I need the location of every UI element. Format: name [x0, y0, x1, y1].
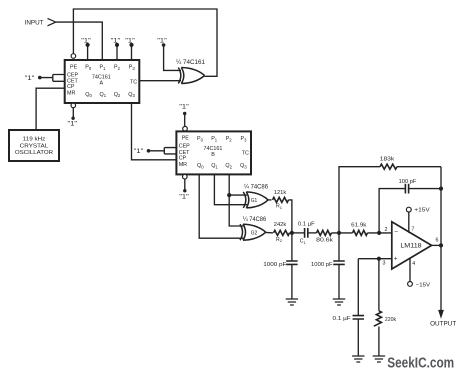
ground 0.1 uF	[352, 356, 364, 362]
svg-text:121k: 121k	[274, 190, 287, 196]
svg-text:CEP: CEP	[67, 72, 78, 78]
output arrow	[440, 245, 442, 310]
active-low bubble MR counter A	[71, 103, 76, 108]
supply -15V pin 4	[409, 258, 411, 281]
resistor R1 121k	[268, 199, 271, 201]
active-low bubble PE counter A	[71, 54, 76, 59]
svg-text:3: 3	[383, 261, 386, 267]
svg-text:119 kHz: 119 kHz	[23, 136, 46, 142]
svg-text:"1": "1"	[125, 38, 135, 45]
svg-text:P0: P0	[197, 136, 204, 142]
svg-text:Q1: Q1	[211, 163, 218, 169]
svg-text:61.9k: 61.9k	[351, 222, 367, 228]
svg-text:SeekIC.com: SeekIC.com	[387, 356, 454, 372]
svg-text:0.1 µF: 0.1 µF	[298, 221, 315, 227]
svg-text:P3: P3	[241, 136, 248, 142]
svg-text:¼ 74C86: ¼ 74C86	[243, 217, 267, 223]
svg-text:Q0: Q0	[85, 92, 92, 98]
xor gate G1 quarter 74C86	[243, 192, 246, 208]
resistor 220k	[378, 259, 380, 311]
svg-text:183k: 183k	[380, 157, 395, 163]
svg-text:220k: 220k	[385, 317, 396, 323]
svg-text:2: 2	[385, 227, 388, 233]
svg-text:CEP: CEP	[179, 144, 190, 150]
svg-text:A: A	[99, 81, 103, 87]
node feedback junction	[337, 231, 341, 235]
svg-text:P2: P2	[114, 65, 121, 71]
svg-text:242k: 242k	[274, 222, 287, 228]
svg-text:CP: CP	[67, 84, 75, 90]
svg-text:TC: TC	[242, 151, 249, 157]
svg-text:100 pF: 100 pF	[399, 179, 417, 185]
ground left 1000 pF	[286, 299, 298, 305]
svg-text:+: +	[394, 255, 398, 262]
wire XOR U3 output feedback to PE of counter A	[73, 9, 217, 76]
node output	[439, 243, 443, 247]
pull-up node P2 counter A	[115, 43, 119, 47]
svg-text:TC: TC	[130, 79, 137, 85]
input terminal arrowhead	[48, 18, 56, 25]
wire non-inverting input network	[358, 258, 392, 260]
svg-text:P2: P2	[226, 136, 233, 142]
wire op-amp output	[432, 244, 441, 246]
xor gate G2 quarter 74C86	[240, 224, 243, 240]
svg-text:1000 pF: 1000 pF	[311, 262, 333, 268]
svg-text:"1": "1"	[111, 38, 121, 45]
svg-text:CP: CP	[179, 155, 187, 161]
svg-text:MR: MR	[67, 90, 75, 96]
svg-text:P0: P0	[85, 65, 92, 71]
counter U1 74C161 A	[65, 60, 140, 103]
resistor 61.9k	[353, 230, 368, 235]
capacitor 100 pF feedback	[379, 189, 405, 233]
resistor 183k feedback	[339, 167, 380, 233]
svg-text:"1": "1"	[81, 38, 91, 45]
svg-text:0.1 µF: 0.1 µF	[333, 316, 352, 322]
svg-text:Q1: Q1	[100, 92, 107, 98]
svg-text:−: −	[394, 228, 398, 235]
wire Q3 counter A to CP counter B	[132, 103, 177, 160]
capacitor C1 0.1 uF	[292, 232, 305, 234]
svg-text:P1: P1	[100, 65, 107, 71]
svg-text:+15V: +15V	[414, 208, 430, 214]
svg-text:1000 pF: 1000 pF	[263, 262, 287, 268]
svg-text:¼ 74C86: ¼ 74C86	[244, 184, 269, 190]
resistor R2 242k	[266, 231, 273, 234]
svg-text:LM118: LM118	[400, 244, 422, 250]
capacitor 1000 pF left	[291, 233, 293, 261]
xor gate U3 quarter 74C161	[178, 68, 181, 84]
wire Q1 counter B to G1	[214, 174, 247, 204]
wire Q0 counter B to G2	[199, 174, 244, 238]
wire INPUT to P1 of counter A	[56, 22, 102, 60]
pull-up node P3 counter A	[129, 43, 133, 47]
svg-text:MR: MR	[179, 162, 187, 168]
svg-text:G1: G1	[251, 198, 258, 204]
svg-text:"1": "1"	[134, 148, 144, 155]
svg-text:C1: C1	[300, 239, 307, 245]
svg-text:PE: PE	[182, 136, 190, 142]
svg-text:¼ 74C161: ¼ 74C161	[176, 60, 206, 66]
svg-text:P1: P1	[211, 136, 218, 142]
svg-text:80.6k: 80.6k	[316, 238, 333, 244]
svg-text:R2: R2	[276, 237, 283, 243]
svg-text:R1: R1	[276, 203, 283, 209]
svg-text:OSCILLATOR: OSCILLATOR	[15, 150, 53, 156]
ground 220k	[373, 356, 385, 362]
ground right 1000 pF	[333, 299, 345, 305]
svg-text:"1": "1"	[179, 104, 189, 111]
svg-text:Q2: Q2	[225, 163, 232, 169]
svg-text:G2: G2	[251, 230, 258, 236]
svg-text:"1": "1"	[25, 75, 35, 82]
capacitor 1000 pF right	[338, 233, 340, 261]
active-low bubble MR counter B	[183, 174, 188, 179]
svg-text:OUTPUT: OUTPUT	[430, 320, 456, 327]
svg-text:B: B	[211, 152, 215, 158]
svg-text:CRYSTAL: CRYSTAL	[20, 143, 49, 149]
op-amp U4 LM118	[392, 222, 432, 269]
svg-text:Q0: Q0	[197, 163, 204, 169]
counter U2 74C161 B	[176, 131, 251, 174]
svg-text:4: 4	[412, 261, 415, 267]
capacitor 0.1 uF non-inverting	[357, 259, 359, 316]
svg-text:Q3: Q3	[240, 163, 247, 169]
crystal oscillator block 119 kHz	[9, 130, 59, 161]
node inverting input junction	[377, 231, 381, 235]
svg-text:P3: P3	[129, 65, 136, 71]
svg-text:6: 6	[436, 238, 439, 244]
svg-text:Q3: Q3	[128, 92, 135, 98]
svg-text:"1": "1"	[179, 194, 189, 201]
svg-text:"1": "1"	[68, 120, 78, 127]
svg-text:−15V: −15V	[416, 282, 431, 288]
supply +15V pin 7	[408, 212, 410, 233]
pull-up node P0 counter A	[86, 43, 90, 47]
svg-text:PE: PE	[70, 64, 78, 70]
node summing junction R1 R2	[290, 231, 294, 235]
wire TC counter A to XOR U3	[139, 80, 181, 82]
wire Q2 counter B to G1 and G2	[229, 174, 244, 226]
svg-text:"1": "1"	[157, 38, 167, 45]
wire feedback to output node	[440, 167, 442, 246]
resistor 80.6k	[308, 232, 317, 234]
svg-text:INPUT: INPUT	[25, 19, 44, 26]
wire crystal oscillator to CP counter A	[36, 88, 65, 130]
svg-text:7: 7	[412, 227, 415, 233]
svg-text:Q2: Q2	[114, 92, 121, 98]
